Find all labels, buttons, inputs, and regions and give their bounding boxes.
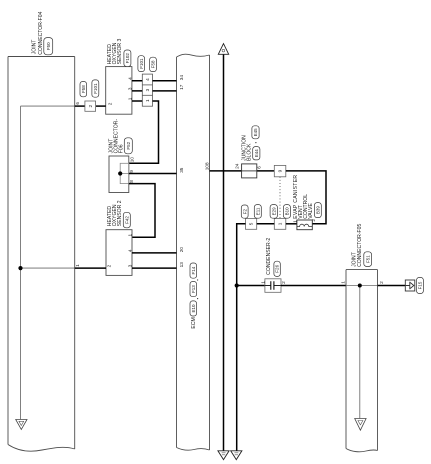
- svg-text:34: 34: [179, 75, 184, 81]
- svg-text:1: 1: [292, 220, 297, 223]
- connector label B10: [283, 205, 290, 219]
- svg-text:B10: B10: [285, 207, 290, 216]
- wire F06 pin8 down to sensor2 pin1: [129, 184, 155, 238]
- connector label E29: [270, 205, 277, 219]
- svg-text:2: 2: [379, 281, 384, 284]
- svg-text:F2: F2: [242, 208, 247, 214]
- svg-text:F52: F52: [126, 141, 131, 149]
- svg-text:4: 4: [145, 78, 150, 81]
- svg-text:F101: F101: [93, 83, 98, 94]
- svg-text:E29: E29: [271, 207, 276, 216]
- wire 5box left down to ground arrow: [237, 224, 246, 451]
- joint connector F04 label: [31, 11, 44, 54]
- F05 internal bus: [346, 286, 378, 419]
- connector label F101 above column: [138, 56, 145, 72]
- wire 1box to valve pin1: [286, 223, 297, 225]
- wire 5box to 1box: [257, 223, 275, 225]
- wire F06 pin9 to ECM 35: [129, 173, 177, 175]
- inline connector box 1: [274, 219, 286, 230]
- wire sensor3 pin4 to ECM 34: [132, 80, 177, 82]
- svg-text:2: 2: [107, 264, 112, 267]
- wire sensor3 pin2 to 2box: [96, 105, 106, 107]
- svg-text:1: 1: [145, 99, 150, 102]
- svg-text:F58: F58: [81, 85, 86, 93]
- svg-text:F101: F101: [139, 58, 144, 69]
- svg-text:F26: F26: [275, 264, 280, 272]
- EVAP valve label: [293, 175, 314, 219]
- svg-text:2: 2: [108, 102, 113, 105]
- svg-text:E11: E11: [256, 207, 261, 215]
- svg-text:3: 3: [127, 264, 132, 267]
- svg-text:20: 20: [179, 247, 184, 253]
- wire sensor3 pin3 to ECM 17: [132, 90, 177, 92]
- svg-text:3: 3: [145, 88, 150, 91]
- svg-text:6: 6: [257, 166, 262, 169]
- joint connector F05 label: [351, 224, 363, 267]
- svg-text:ECM: ECM: [191, 317, 197, 328]
- svg-text:E44: E44: [254, 149, 259, 158]
- wire ECM 108 to junction block 24: [210, 170, 275, 172]
- svg-text:VALVE: VALVE: [308, 203, 314, 219]
- svg-text:13: 13: [179, 262, 184, 268]
- node junction in F04: [18, 266, 22, 270]
- svg-text:E45: E45: [253, 128, 258, 137]
- page arrow bottom right: [231, 451, 242, 460]
- page arrow bottom left: [218, 451, 229, 460]
- svg-text:SENSOR 2: SENSOR 2: [117, 200, 123, 226]
- svg-text:1: 1: [260, 281, 265, 284]
- wire F05 pin2 to body ground F15: [378, 285, 406, 287]
- page arrow top: [218, 44, 228, 55]
- svg-text:2: 2: [281, 281, 286, 284]
- joint connector F04 strip body: [8, 57, 75, 452]
- wire sensor2 pin4 to ECM 20: [132, 252, 177, 254]
- wire condenser pin2 to F05 pin1: [281, 285, 346, 287]
- svg-text:F13: F13: [191, 285, 196, 293]
- svg-text:CONDENSER-2: CONDENSER-2: [266, 238, 272, 275]
- svg-text:F102: F102: [125, 53, 130, 64]
- inline connector box 9: [274, 165, 286, 176]
- connector label F58 above 2box: [80, 82, 87, 97]
- condenser-2 body: [265, 279, 281, 293]
- svg-text:5: 5: [249, 222, 254, 225]
- heated oxygen sensor 2 body: [106, 230, 132, 276]
- connector label F58 above column: [150, 57, 157, 71]
- inline connector column F101/F58: [142, 74, 152, 106]
- svg-text:17: 17: [179, 84, 184, 90]
- connector label F52: [124, 138, 132, 154]
- connector label F13: [190, 282, 197, 297]
- svg-text:F51: F51: [365, 255, 370, 263]
- dotted connector link: [279, 177, 281, 219]
- connector label F2: [241, 205, 248, 218]
- svg-text:24: 24: [235, 163, 240, 169]
- connector label F101 above 2box: [92, 80, 99, 97]
- connector label F51: [364, 252, 372, 267]
- joint connector F06 label: [108, 119, 124, 154]
- ground arrow in F05: [355, 419, 366, 431]
- connector label F15: [417, 277, 424, 293]
- svg-text:3: 3: [127, 87, 132, 90]
- connector label E11: [254, 205, 261, 219]
- svg-text:1: 1: [127, 234, 132, 237]
- node junction in F06: [118, 171, 122, 175]
- svg-text:1: 1: [127, 97, 132, 100]
- comma between E44 E45: [255, 142, 256, 143]
- wire 9box right to EVAP valve pin 2: [286, 171, 326, 224]
- svg-text:JOINT: JOINT: [31, 40, 37, 55]
- connector label F26: [274, 261, 280, 276]
- svg-text:9: 9: [278, 169, 283, 172]
- junction block label: [242, 135, 253, 161]
- svg-text:8: 8: [129, 180, 134, 183]
- svg-text:35: 35: [179, 167, 184, 173]
- joint connector F05 strip body: [346, 270, 378, 452]
- svg-text:9: 9: [129, 170, 134, 173]
- wire F04 internal bus from pin 6 down to ground: [21, 106, 75, 419]
- wire sensor2 pin2 to F04 pin1: [75, 267, 106, 269]
- connector label F50: [44, 38, 53, 55]
- svg-text:F50: F50: [46, 42, 51, 50]
- heated oxygen sensor 3 label: [107, 38, 123, 64]
- ECM label: [191, 317, 197, 328]
- svg-text:4: 4: [127, 249, 132, 252]
- svg-text:BLOCK: BLOCK: [246, 143, 252, 161]
- node junction at condenser tap: [235, 283, 239, 287]
- inline connector box 2 (F58/F101): [85, 101, 96, 111]
- svg-text:1: 1: [278, 222, 283, 225]
- svg-text:6: 6: [75, 102, 80, 105]
- heated oxygen sensor 3 body: [106, 67, 132, 115]
- connector label F102: [124, 50, 131, 67]
- svg-text:F58: F58: [151, 60, 156, 68]
- connector label E10: [190, 301, 197, 316]
- connector label F42: [123, 212, 130, 228]
- wire sensor2 pin3 to ECM 13: [132, 267, 177, 269]
- svg-text:SENSOR 3: SENSOR 3: [117, 38, 123, 64]
- page continuation line A: [223, 54, 225, 450]
- connector label E44: [253, 147, 260, 160]
- svg-text:2: 2: [88, 104, 93, 107]
- connector label B39: [314, 203, 321, 218]
- svg-text:1: 1: [75, 264, 80, 267]
- junction block body: [242, 164, 257, 178]
- ECM strip body: [177, 54, 210, 450]
- node junction in F05: [358, 284, 362, 288]
- svg-text:4: 4: [127, 77, 132, 80]
- svg-text:108: 108: [205, 162, 210, 170]
- wire 2box to F04 pin6: [75, 105, 85, 107]
- heated oxygen sensor 2 label: [107, 200, 123, 226]
- F06 internal bracket bus: [120, 163, 129, 183]
- ground arrow in F04: [16, 420, 27, 430]
- wire sensor3 pin1 down to F06 pin10: [129, 101, 159, 163]
- body ground terminal F15: [405, 280, 415, 291]
- svg-text:F15: F15: [418, 281, 423, 289]
- svg-text:F06: F06: [119, 144, 125, 153]
- EVAP canister vent control valve body: [297, 220, 312, 230]
- svg-text:F42: F42: [124, 216, 129, 224]
- svg-text:2: 2: [311, 219, 316, 222]
- svg-text:10: 10: [130, 157, 135, 163]
- svg-text:1: 1: [341, 281, 346, 284]
- comma marks between ECM labels: [197, 279, 198, 299]
- inline connector box 5: [246, 219, 257, 230]
- joint connector F06 body: [109, 156, 129, 193]
- wire junction to condenser pin1: [237, 285, 265, 287]
- svg-text:F14: F14: [191, 266, 196, 274]
- svg-text:CONNECTOR-F04: CONNECTOR-F04: [38, 11, 44, 54]
- svg-text:CONNECTOR-F05: CONNECTOR-F05: [357, 224, 363, 267]
- connector label F14: [190, 263, 197, 278]
- connector label E45: [252, 126, 259, 139]
- svg-text:B39: B39: [316, 206, 321, 215]
- svg-text:E10: E10: [191, 304, 196, 313]
